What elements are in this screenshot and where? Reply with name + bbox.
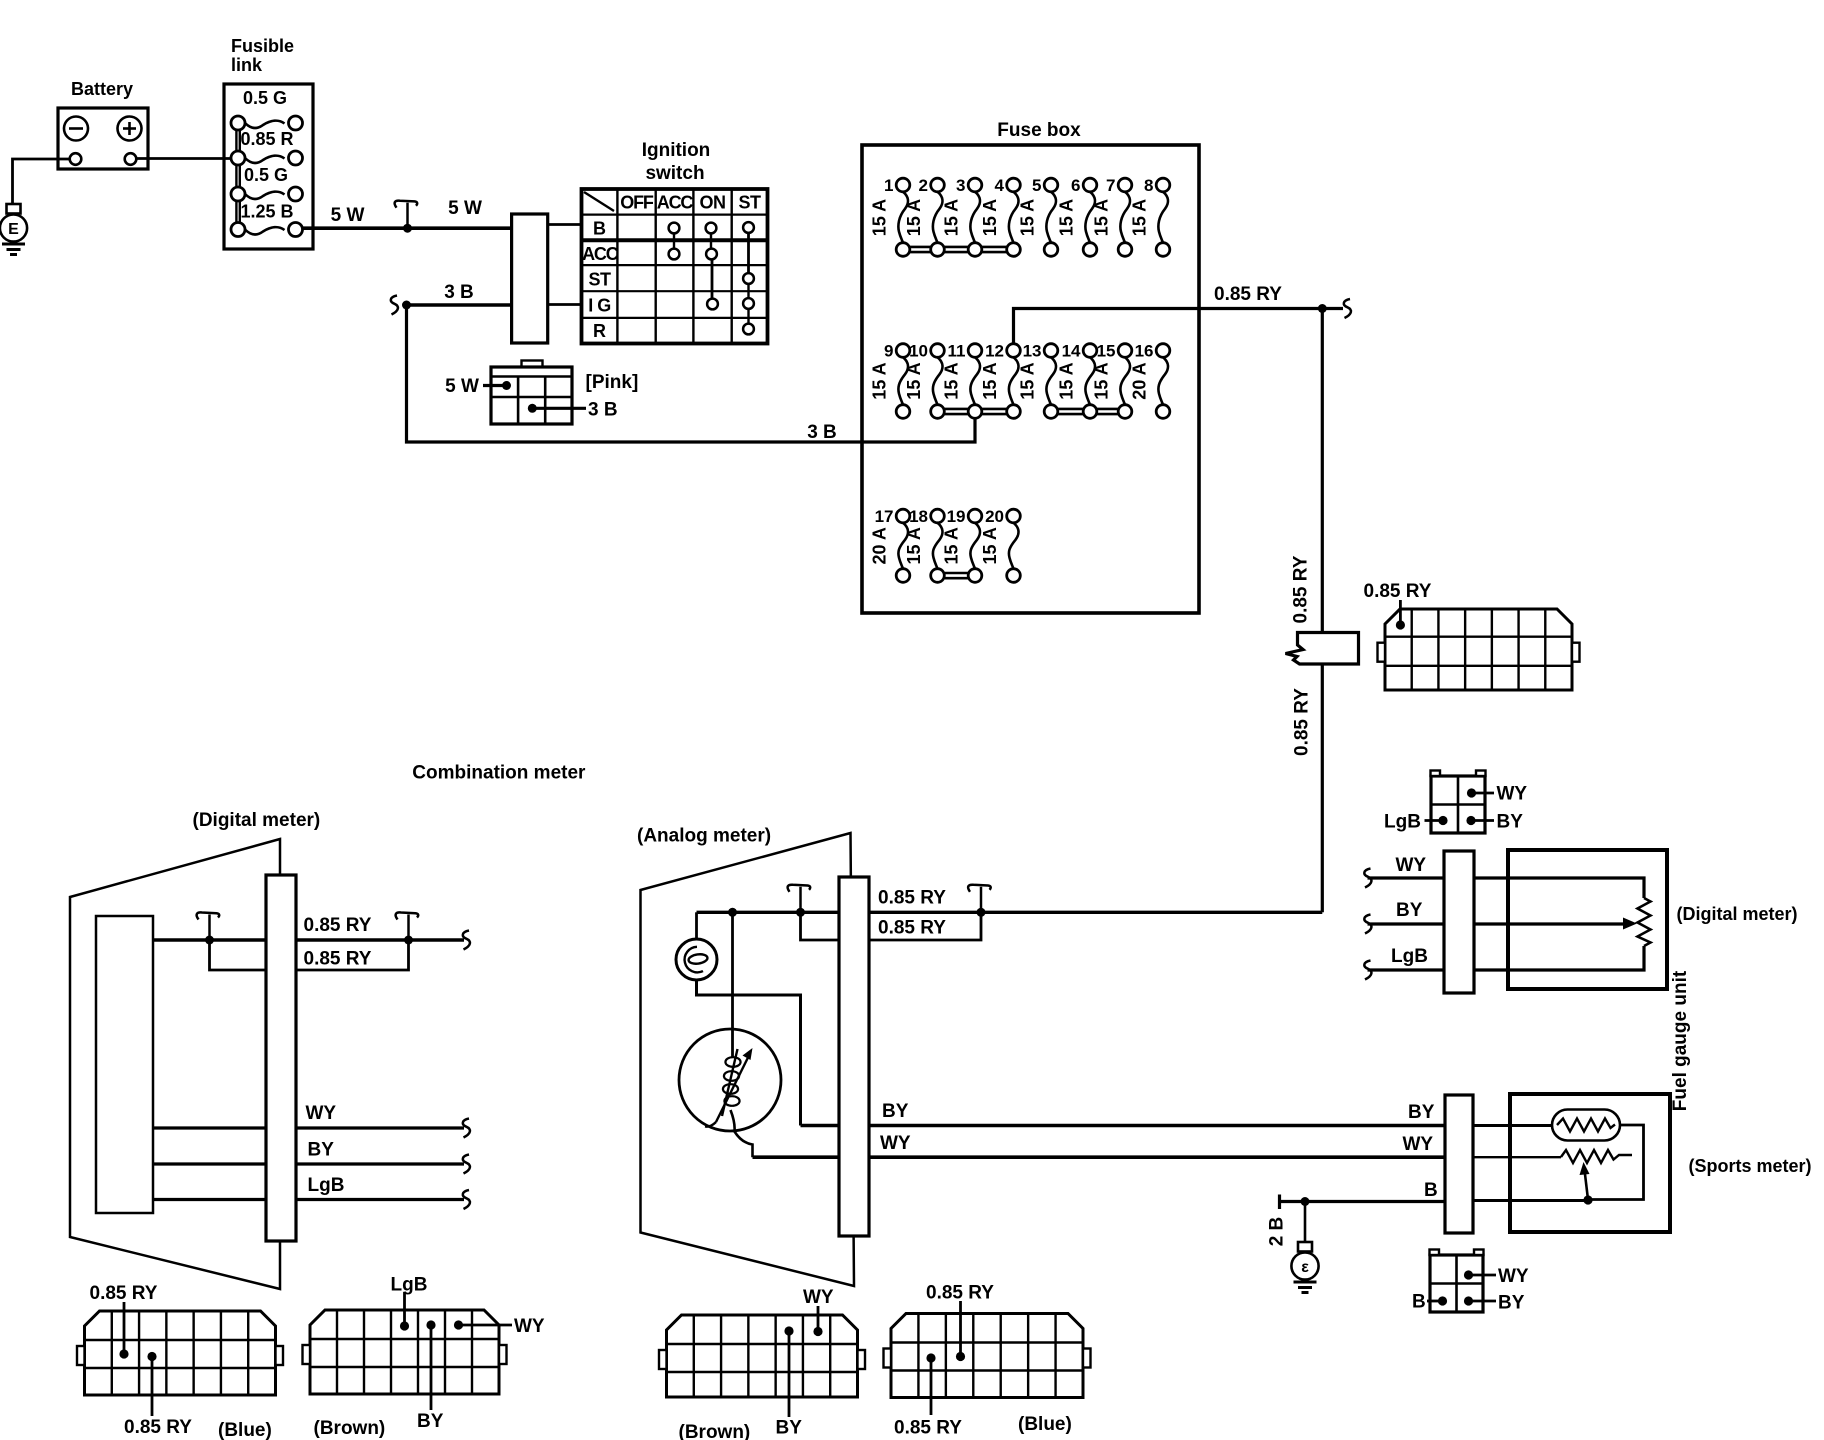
ignition switch table: [582, 189, 768, 344]
K3 dot WY: [454, 1320, 463, 1329]
svg-text:R: R: [593, 321, 606, 341]
wire LgB fuel: [1368, 946, 1645, 970]
wire 3B to connector: [407, 303, 512, 307]
svg-text:WY: WY: [514, 1316, 545, 1337]
connector bar (digital sender): [1444, 851, 1474, 993]
connector C2 (digital sender): [1431, 771, 1486, 834]
svg-text:E: E: [8, 221, 19, 238]
svg-text:WY: WY: [1396, 855, 1427, 876]
wire 0.85RY analog loop: [801, 912, 982, 940]
lamp wire top: [695, 912, 698, 939]
junction analog row1 c: [977, 908, 986, 917]
svg-text:0.85 RY: 0.85 RY: [1291, 555, 1312, 623]
svg-text:ACC: ACC: [582, 244, 619, 264]
wire B: [1280, 1200, 1446, 1203]
svg-text:link: link: [231, 55, 263, 75]
svg-text:OFF: OFF: [620, 193, 654, 213]
connector bar (ignition switch): [512, 214, 548, 343]
svg-text:WY: WY: [803, 1287, 834, 1308]
svg-text:20: 20: [985, 507, 1004, 526]
wire 5W to pink connector: [483, 384, 507, 387]
analog meter trapezoid: [641, 833, 855, 1286]
svg-text:LgB: LgB: [391, 1275, 428, 1296]
wire 0.85RY to connector: [1399, 600, 1402, 625]
svg-text:2 B: 2 B: [1267, 1217, 1288, 1247]
K5 dot 0.85RY a: [926, 1353, 935, 1362]
C3 dot B: [1438, 1296, 1447, 1305]
battery: [58, 108, 148, 169]
wire B to ground: [1304, 1202, 1307, 1243]
svg-text:LgB: LgB: [308, 1175, 345, 1196]
connector K4 (Brown): [659, 1315, 865, 1397]
svg-text:15 A: 15 A: [1092, 199, 1112, 236]
C2 dot BY: [1466, 816, 1475, 825]
svg-text:0.5 G: 0.5 G: [243, 88, 287, 108]
svg-text:WY: WY: [1497, 784, 1528, 805]
junction digital row1 b: [404, 936, 413, 945]
svg-text:10: 10: [909, 342, 928, 361]
svg-text:0.85 RY: 0.85 RY: [926, 1283, 994, 1304]
svg-text:0.85 RY: 0.85 RY: [304, 949, 372, 970]
svg-text:Fuse box: Fuse box: [997, 120, 1081, 141]
ignition contact links: [674, 233, 749, 324]
fusible link 0.85 R: [231, 129, 303, 165]
wire battery negative to ground: [13, 159, 71, 204]
curl 0.85RY end: [1344, 299, 1351, 318]
pigtail digital b: [407, 915, 410, 941]
svg-text:20 A: 20 A: [870, 527, 890, 564]
wire 3B from pink connector: [532, 407, 586, 410]
svg-text:[Pink]: [Pink]: [586, 372, 639, 393]
svg-text:Combination meter: Combination meter: [412, 763, 586, 784]
svg-text:0.85 R: 0.85 R: [240, 129, 293, 149]
fuse 14: [1057, 342, 1097, 419]
wiper arrow (digital sender): [1623, 918, 1637, 930]
wire WY digital: [153, 1126, 464, 1129]
svg-text:11: 11: [948, 342, 966, 361]
K2 dot 0.85RY a: [119, 1349, 128, 1358]
fuse 3: [942, 176, 982, 256]
svg-text:I G: I G: [588, 296, 611, 316]
junction 5W: [403, 224, 412, 233]
digital meter trapezoid: [70, 839, 280, 1289]
wire 3B down and to fuse box: [407, 305, 976, 442]
fuse box: [862, 145, 1199, 613]
svg-text:0.85 RY: 0.85 RY: [1214, 284, 1282, 305]
wire WY fuel gauge: [1368, 878, 1645, 898]
svg-text:3: 3: [956, 176, 965, 195]
ground E (battery): [0, 204, 27, 255]
connector K5 (Blue): [884, 1314, 1091, 1398]
wire connector to table IG: [548, 303, 582, 306]
wiper arrow (sports): [1585, 1170, 1589, 1200]
svg-text:(Analog meter): (Analog meter): [637, 826, 771, 847]
svg-text:BY: BY: [1408, 1102, 1435, 1123]
svg-text:18: 18: [909, 507, 928, 526]
wire sender right link: [1588, 1125, 1644, 1200]
junction sports sender: [1583, 1195, 1592, 1204]
fusible link (wire) symbol: [1286, 633, 1359, 665]
svg-text:0.85 RY: 0.85 RY: [878, 918, 946, 939]
svg-text:WY: WY: [306, 1103, 337, 1124]
K2 dot 0.85RY b: [147, 1352, 156, 1361]
fuel gauge element (sports): [1552, 1110, 1620, 1141]
svg-text:Battery: Battery: [71, 79, 133, 99]
svg-text:17: 17: [875, 507, 894, 526]
C2 dot WY: [1467, 788, 1476, 797]
svg-text:12: 12: [985, 342, 1004, 361]
junction 3B: [402, 301, 411, 310]
svg-text:switch: switch: [645, 163, 704, 184]
svg-text:15 A: 15 A: [980, 362, 1000, 399]
wire B into sports box: [1473, 1199, 1588, 1202]
svg-text:15 A: 15 A: [942, 362, 962, 399]
resistor (digital sender): [1638, 898, 1651, 946]
svg-text:ON: ON: [700, 193, 726, 213]
wire 0.85RY digital loop: [210, 940, 409, 970]
fuse 10: [904, 342, 944, 419]
svg-text:(Digital meter): (Digital meter): [1677, 904, 1798, 924]
fuse bus row A: [910, 246, 1007, 249]
wire 0.85RY vertical: [1321, 309, 1324, 913]
svg-text:3 B: 3 B: [807, 422, 837, 443]
fuse 6: [1057, 176, 1097, 256]
svg-text:15 A: 15 A: [980, 527, 1000, 564]
fusible link box: [224, 84, 313, 249]
fuse 4: [980, 176, 1020, 256]
fuse 20: [980, 507, 1020, 582]
svg-text:15 A: 15 A: [870, 362, 890, 399]
svg-text:BY: BY: [1497, 812, 1524, 833]
svg-text:0.85 RY: 0.85 RY: [90, 1283, 158, 1304]
svg-text:(Brown): (Brown): [679, 1422, 751, 1440]
gauge needle: [716, 1055, 750, 1123]
fuse 5: [1018, 176, 1058, 256]
fuse 19: [942, 507, 982, 582]
svg-text:14: 14: [1062, 342, 1081, 361]
K5 dot 0.85RY b: [956, 1352, 965, 1361]
fuse 11: [942, 342, 982, 419]
svg-text:13: 13: [1023, 342, 1042, 361]
svg-text:4: 4: [995, 176, 1005, 195]
wire BY into sports box: [1473, 1124, 1557, 1127]
C3 dot WY: [1464, 1270, 1473, 1279]
svg-text:BY: BY: [308, 1140, 335, 1161]
fuse bus row B: [944, 408, 1006, 411]
svg-text:0.85 RY: 0.85 RY: [1364, 581, 1432, 602]
pigtail 5W: [406, 203, 409, 229]
wire WY analog to sports: [753, 1155, 1446, 1159]
svg-text:5: 5: [1032, 176, 1041, 195]
svg-text:BY: BY: [1498, 1293, 1525, 1314]
svg-text:B: B: [593, 219, 606, 239]
wire LgB digital: [153, 1198, 464, 1201]
connector C3 (sports sender): [1430, 1250, 1484, 1313]
svg-text:Fuel gauge unit: Fuel gauge unit: [1670, 970, 1691, 1111]
svg-text:7: 7: [1106, 176, 1115, 195]
svg-text:ST: ST: [588, 270, 611, 290]
connector K3 (Brown): [303, 1310, 507, 1394]
wire BY digital: [153, 1162, 464, 1165]
B wire end tick: [1278, 1195, 1281, 1210]
svg-text:(Blue): (Blue): [1018, 1414, 1072, 1435]
fuse bus row C: [945, 572, 968, 575]
svg-text:1: 1: [884, 176, 893, 195]
svg-text:Fusible: Fusible: [231, 36, 294, 56]
svg-text:WY: WY: [1403, 1134, 1434, 1155]
connector (Pink): [491, 361, 572, 425]
svg-text:ST: ST: [738, 193, 761, 213]
svg-text:0.85 RY: 0.85 RY: [124, 1417, 192, 1438]
fusible link 0.5 G: [231, 88, 303, 130]
svg-text:15 A: 15 A: [1018, 362, 1038, 399]
fuse 8: [1130, 176, 1170, 256]
fuse 12: [980, 342, 1020, 419]
fusible link 0.5 G (2): [231, 165, 303, 201]
curl 3B junction: [391, 296, 398, 315]
svg-text:15 A: 15 A: [904, 199, 924, 236]
svg-text:15 A: 15 A: [1018, 199, 1038, 236]
svg-text:WY: WY: [880, 1133, 911, 1154]
wire 0.85RY from fuse 12: [1014, 309, 1323, 344]
svg-text:15 A: 15 A: [942, 527, 962, 564]
fuse 13: [1018, 342, 1058, 419]
svg-text:(Brown): (Brown): [314, 1418, 386, 1439]
sports meter box: [1510, 1094, 1670, 1232]
fuse 9: [870, 342, 910, 419]
svg-text:16: 16: [1135, 342, 1154, 361]
K3 dot LgB: [400, 1321, 409, 1330]
svg-text:Ignition: Ignition: [642, 140, 711, 161]
junction analog row1 a: [728, 908, 737, 917]
curl digital 0.85RY end: [463, 931, 470, 950]
connector bar (digital meter): [266, 875, 296, 1241]
svg-text:15 A: 15 A: [904, 527, 924, 564]
fuse 1: [870, 176, 910, 256]
wire 5W: [303, 226, 512, 230]
svg-text:0.85 RY: 0.85 RY: [304, 915, 372, 936]
svg-text:9: 9: [884, 342, 893, 361]
gauge wire: [731, 912, 734, 1058]
fuse 16: [1130, 342, 1170, 419]
fusible link bus: [235, 126, 237, 226]
junction B: [1301, 1197, 1310, 1206]
wire battery positive to fusible link: [136, 157, 232, 160]
lamp (illumination bulb): [676, 939, 717, 980]
svg-text:B: B: [1424, 1180, 1438, 1201]
svg-text:BY: BY: [417, 1411, 444, 1432]
svg-text:15 A: 15 A: [1057, 362, 1077, 399]
pigtail analog b: [799, 887, 802, 913]
svg-text:3 B: 3 B: [444, 282, 474, 303]
fusible link 1.25 B: [231, 202, 303, 237]
svg-text:15 A: 15 A: [904, 362, 924, 399]
svg-text:15 A: 15 A: [870, 199, 890, 236]
connector (0.85RY feed): [1378, 609, 1580, 690]
gauge wire exit: [731, 1110, 753, 1157]
svg-text:15 A: 15 A: [1130, 199, 1150, 236]
fuse 15: [1092, 342, 1132, 419]
svg-text:15 A: 15 A: [942, 199, 962, 236]
svg-text:15 A: 15 A: [980, 199, 1000, 236]
wire 0.85RY analog row1: [697, 911, 1323, 914]
svg-text:0.85 RY: 0.85 RY: [878, 888, 946, 909]
fuel gauge unit box (digital): [1508, 850, 1667, 989]
K4 dot WY: [813, 1327, 822, 1336]
digital meter inner unit: [96, 916, 153, 1213]
wire BY analog to sports: [801, 1124, 1446, 1128]
svg-text:(Digital meter): (Digital meter): [193, 810, 321, 831]
svg-text:BY: BY: [882, 1101, 909, 1122]
junction 0.85RY: [1318, 304, 1327, 313]
ignition contacts: [669, 222, 754, 334]
svg-text:15: 15: [1097, 342, 1116, 361]
pigtail digital a: [208, 915, 211, 941]
svg-text:0.85 RY: 0.85 RY: [1292, 688, 1313, 756]
svg-text:19: 19: [947, 507, 966, 526]
svg-text:5 W: 5 W: [331, 205, 365, 226]
wire BY fuel: [1368, 922, 1627, 925]
svg-text:(Sports meter): (Sports meter): [1689, 1156, 1812, 1176]
connector K2 (Blue): [77, 1311, 283, 1395]
svg-text:20 A: 20 A: [1130, 362, 1150, 399]
wire connector to table B: [548, 223, 582, 226]
K4 dot BY: [784, 1326, 793, 1335]
connector bar (analog meter): [839, 877, 869, 1236]
svg-text:ACC: ACC: [657, 193, 694, 213]
svg-text:LgB: LgB: [1391, 946, 1428, 967]
svg-text:WY: WY: [1498, 1266, 1529, 1287]
svg-text:(Blue): (Blue): [218, 1420, 272, 1440]
svg-text:ε: ε: [1301, 1259, 1309, 1276]
fuse 7: [1092, 176, 1132, 256]
svg-text:LgB: LgB: [1384, 812, 1421, 833]
svg-text:BY: BY: [1396, 900, 1423, 921]
C3 dot BY: [1464, 1296, 1473, 1305]
svg-text:6: 6: [1071, 176, 1080, 195]
wire 0.85RY digital row1: [153, 938, 464, 941]
connector bar (sports sender): [1445, 1095, 1473, 1233]
svg-text:5 W: 5 W: [448, 198, 482, 219]
svg-text:2: 2: [919, 176, 928, 195]
fuse 2: [904, 176, 944, 256]
svg-text:B: B: [1412, 1292, 1426, 1313]
fuse 18: [904, 507, 944, 582]
junction digital row1 a: [205, 936, 214, 945]
variable resistor (sports): [1473, 1150, 1632, 1163]
svg-text:15 A: 15 A: [1057, 199, 1077, 236]
svg-text:0.85 RY: 0.85 RY: [894, 1418, 962, 1439]
svg-text:1.25 B: 1.25 B: [240, 202, 293, 222]
svg-text:0.5 G: 0.5 G: [244, 165, 288, 185]
svg-text:5 W: 5 W: [445, 376, 479, 397]
C2 dot LgB: [1438, 816, 1447, 825]
ground E (sports): [1291, 1242, 1318, 1293]
fuel gauge (analog movement): [679, 1029, 781, 1157]
pigtail analog c: [980, 887, 983, 913]
fuse 17: [870, 507, 910, 582]
svg-text:15 A: 15 A: [1092, 362, 1112, 399]
lamp wire bottom: [697, 980, 801, 1126]
svg-text:BY: BY: [776, 1418, 803, 1439]
svg-text:3 B: 3 B: [588, 400, 618, 421]
svg-text:8: 8: [1144, 176, 1153, 195]
junction analog row1 b: [796, 908, 805, 917]
K3 dot BY: [426, 1320, 435, 1329]
